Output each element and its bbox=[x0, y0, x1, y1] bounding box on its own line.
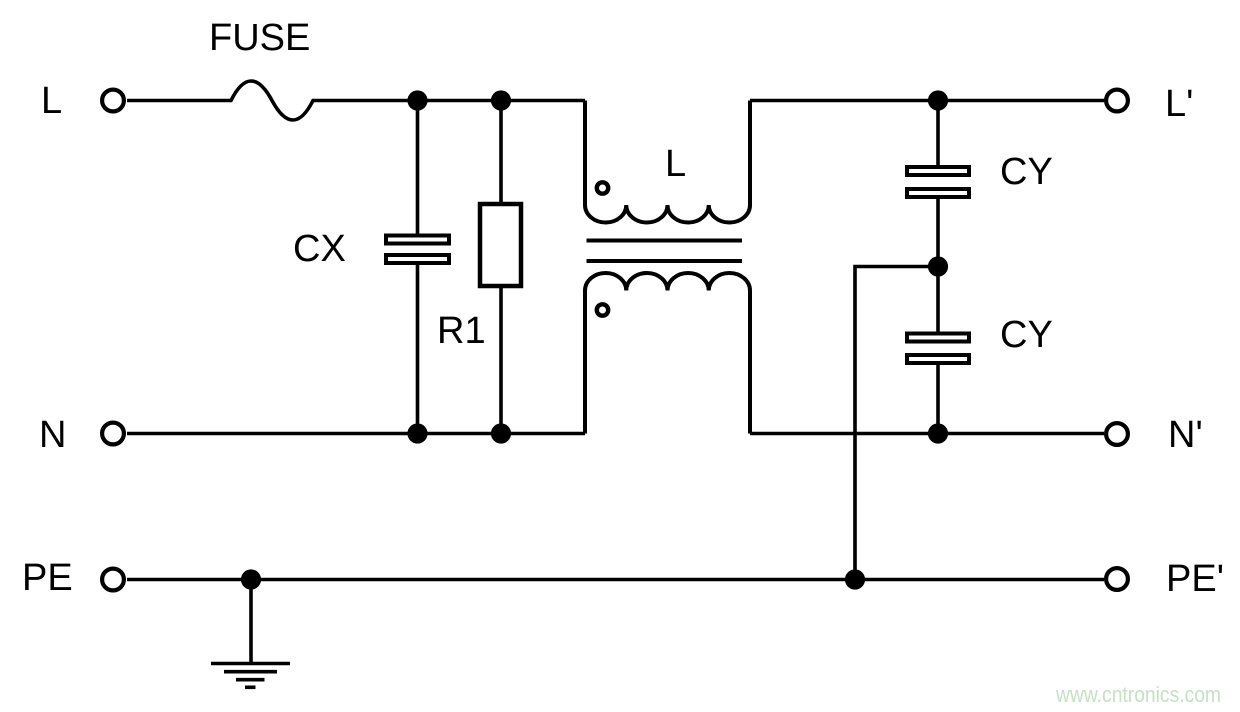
terminal L bbox=[102, 90, 124, 112]
terminal PE' bbox=[1106, 568, 1128, 590]
svg-text:L: L bbox=[665, 143, 686, 185]
svg-text:N': N' bbox=[1168, 414, 1203, 456]
capacitor CX bbox=[386, 236, 449, 264]
svg-text:CX: CX bbox=[293, 228, 346, 270]
svg-text:FUSE: FUSE bbox=[209, 17, 310, 59]
wire CY branch top bbox=[936, 101, 940, 166]
svg-text:N: N bbox=[39, 414, 66, 456]
wire CX branch top bbox=[416, 101, 420, 234]
svg-text:PE': PE' bbox=[1166, 558, 1224, 600]
junction dot L-CY bbox=[928, 90, 948, 110]
wire CY middle link bbox=[936, 199, 940, 332]
choke phase dot top bbox=[597, 182, 608, 193]
svg-text:R1: R1 bbox=[437, 310, 486, 352]
ground bbox=[211, 664, 290, 688]
wire PE line bbox=[127, 578, 1104, 582]
svg-text:L: L bbox=[41, 80, 62, 122]
terminal L' bbox=[1106, 90, 1128, 112]
resistor R1 bbox=[480, 204, 521, 286]
junction dot N-CY bbox=[928, 423, 948, 443]
svg-text:PE: PE bbox=[22, 557, 73, 599]
svg-text:CY: CY bbox=[1000, 151, 1053, 193]
choke secondary winding bbox=[585, 273, 750, 434]
wire midpoint to PE bbox=[855, 267, 938, 580]
junction dot PE-ground bbox=[241, 569, 261, 589]
svg-text:L': L' bbox=[1165, 83, 1193, 125]
junction dot N-CX bbox=[407, 423, 427, 443]
wire N line right bbox=[750, 432, 1104, 436]
capacitor CY top bbox=[907, 167, 969, 197]
choke phase dot bottom bbox=[597, 304, 608, 315]
wire CX branch bottom bbox=[416, 265, 420, 434]
wire ground stem bbox=[249, 580, 253, 664]
junction dot L-CX bbox=[407, 90, 427, 110]
wire N line left bbox=[127, 432, 585, 436]
wire R1 branch bottom bbox=[499, 286, 503, 434]
svg-text:CY: CY bbox=[1000, 314, 1053, 356]
wire CY branch bottom bbox=[936, 365, 940, 434]
wire R1 branch top bbox=[499, 101, 503, 205]
choke primary winding bbox=[585, 101, 750, 223]
choke core lines bbox=[587, 241, 743, 262]
junction dot L-R1 bbox=[491, 90, 511, 110]
junction dot N-R1 bbox=[491, 423, 511, 443]
capacitor CY bottom bbox=[907, 334, 969, 364]
junction dot CY midpoint bbox=[928, 256, 948, 276]
wire L line with fuse bbox=[127, 81, 585, 120]
svg-text:www.cntronics.com: www.cntronics.com bbox=[1055, 682, 1221, 707]
terminal PE bbox=[102, 569, 124, 591]
wire L line right bbox=[750, 99, 1104, 103]
terminal N bbox=[102, 423, 124, 445]
terminal N' bbox=[1106, 423, 1128, 445]
junction dot PE-CY bbox=[845, 569, 865, 589]
